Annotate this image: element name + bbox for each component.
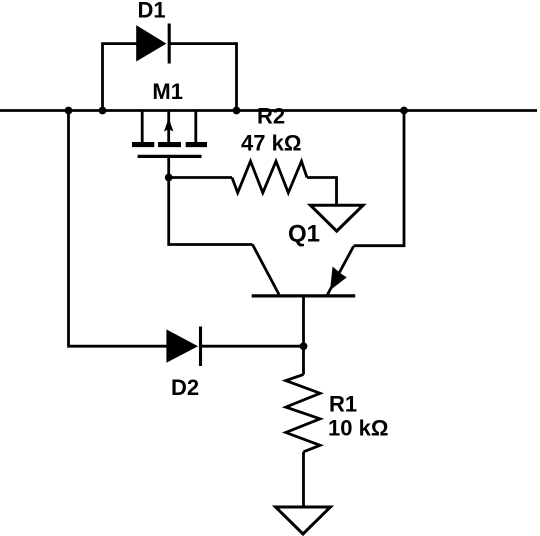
node A junction dot left branch [65,107,73,115]
node C junction dot D1 right leg [233,107,241,115]
node E gate junction dot [165,174,173,182]
svg-text:R1: R1 [329,392,357,417]
drain stub [141,111,144,143]
body arrow head [164,118,173,132]
base lead [302,296,305,346]
base bar [252,294,356,297]
ground bottom [276,507,331,534]
source stub [194,111,197,143]
emitter diagonal [327,246,353,295]
svg-text:47 kΩ: 47 kΩ [241,131,301,156]
gate lead [167,156,170,177]
node F junction dot base/D2/R1 [300,342,308,350]
wire D2 to node F [201,345,304,348]
svg-text:R2: R2 [257,104,285,129]
channel bar right [186,142,207,147]
wire emitter to rail [354,111,404,246]
wire R1 to ground [302,452,305,507]
resistor R1 [286,375,320,452]
svg-text:D1: D1 [137,0,165,23]
ground after R2 [310,205,363,231]
diode D2 [166,327,200,367]
body arrow shaft [167,111,170,143]
diode D1 [136,24,169,64]
wire gate to R2 [169,176,232,179]
collector diagonal [253,245,280,295]
node D junction dot emitter branch [400,107,408,115]
svg-text:Q1: Q1 [288,221,320,248]
gate bar [138,155,202,158]
resistor R2 [232,161,307,193]
svg-text:M1: M1 [152,79,183,104]
channel bar middle [158,142,181,147]
wire main horizontal rail [0,109,537,112]
transistor Q1 [252,245,356,347]
emitter arrow head [330,267,347,291]
svg-text:10 kΩ: 10 kΩ [328,416,388,441]
wire node F down to R1 [302,346,305,374]
wire gate node down to collector [169,178,253,245]
transistor M1 mosfet [132,111,207,178]
wire D1 left leg up [103,44,137,111]
wire left branch down [69,111,167,347]
svg-text:D2: D2 [171,375,199,400]
wire D1 right leg down [169,44,236,111]
node B junction dot D1 left leg [99,107,107,115]
wire R2 to ground [307,178,337,206]
channel bar left [132,142,154,147]
